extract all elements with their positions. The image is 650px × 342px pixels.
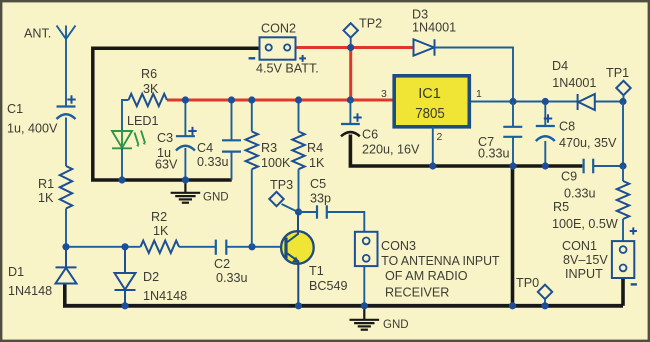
svg-text:OF AM RADIO: OF AM RADIO — [385, 269, 468, 283]
connector CON2 4.5V battery — [260, 37, 296, 59]
wire black riser from D1 anode to ground rail — [63, 284, 67, 306]
svg-text:0.33u: 0.33u — [564, 187, 596, 201]
wire LED1 to black line — [121, 148, 123, 180]
wire CON3 to ground rail — [363, 266, 365, 306]
svg-text:R4: R4 — [307, 141, 323, 155]
capacitor C1 (1u, 400V electrolytic) — [57, 105, 76, 107]
junction TP2 on battery rail — [347, 44, 354, 51]
junction C3 bottom / GND — [182, 176, 189, 183]
wire C1 to R1 — [65, 118, 67, 167]
resistor R2 1K — [141, 241, 180, 253]
junction TP1 / D4 / R5 column — [619, 98, 626, 105]
svg-text:T1: T1 — [309, 264, 324, 278]
svg-text:D2: D2 — [143, 270, 159, 284]
svg-text:C9: C9 — [561, 170, 577, 184]
label CON1 plus — [630, 227, 637, 234]
capacitor C2 0.33u — [216, 240, 227, 255]
svg-text:IC1: IC1 — [418, 86, 441, 102]
svg-text:0.33u: 0.33u — [478, 147, 510, 161]
wire C5 to CON3 — [327, 212, 365, 232]
svg-text:R1: R1 — [38, 177, 54, 191]
wire red battery positive from CON2 to D3 anode — [295, 46, 414, 49]
svg-text:R6: R6 — [141, 67, 157, 81]
svg-text:TP3: TP3 — [270, 178, 293, 192]
junction R3 on red rail — [248, 96, 255, 103]
wire node to R5 — [622, 166, 624, 181]
svg-text:TP1: TP1 — [606, 66, 629, 80]
junction C8 on ground line — [542, 162, 549, 169]
resistor R1 1K — [60, 166, 72, 209]
wire TP2 stub — [350, 38, 352, 46]
junction R3 bottom / base line — [248, 243, 255, 250]
wire ground stub at C3 — [184, 181, 186, 192]
wire black battery-negative loop from CON2 around left to C4 — [93, 48, 260, 180]
test point TP3 — [269, 192, 283, 206]
svg-text:GND: GND — [203, 192, 229, 204]
svg-text:1u, 400V: 1u, 400V — [7, 122, 58, 136]
junction TP0 on ground rail — [541, 302, 548, 309]
wire red supply rail from R6 to IC1 pin 3 — [167, 99, 393, 102]
svg-text:1: 1 — [476, 88, 482, 100]
svg-text:1N4001: 1N4001 — [552, 76, 596, 90]
wire output node to C7 — [512, 102, 514, 127]
svg-text:BC549: BC549 — [309, 279, 348, 293]
transistor T1 BC549 — [281, 231, 314, 264]
junction emitter to ground rail — [295, 302, 302, 309]
resistor R6 3K — [129, 94, 168, 106]
node junction R1/D1/R2 — [62, 243, 69, 250]
svg-text:D4: D4 — [552, 59, 568, 73]
test point TP2 — [344, 23, 358, 37]
svg-text:2: 2 — [437, 131, 443, 143]
diode D4 1N4001 (pointing left) — [578, 94, 595, 110]
diode D3 1N4001 — [414, 39, 435, 55]
wire TP3 stub to collector node — [282, 204, 298, 212]
capacitor C9 0.33u — [584, 159, 594, 174]
wire R4 to collector node — [298, 169, 300, 212]
junction C7 / ground drop — [509, 162, 516, 169]
capacitor C7 0.33u — [503, 127, 522, 137]
diode D2 1N4148 (cathode down) — [115, 247, 136, 306]
svg-text:R2: R2 — [151, 210, 167, 224]
node junction R2 input / D2 — [121, 243, 128, 250]
junction R4 on red rail — [295, 96, 302, 103]
junction output node — [509, 98, 516, 105]
svg-text:3K: 3K — [143, 82, 159, 96]
label CON2 plus — [299, 55, 306, 62]
wire C8 to ground line — [544, 141, 546, 166]
wire antenna to C1 — [65, 39, 67, 107]
svg-text:CON1: CON1 — [562, 239, 597, 253]
svg-text:220u, 16V: 220u, 16V — [362, 143, 420, 157]
junction C4 top on red rail — [228, 96, 235, 103]
svg-text:C5: C5 — [310, 177, 326, 191]
svg-text:INPUT: INPUT — [565, 267, 603, 281]
junction C3 top on red rail — [182, 96, 189, 103]
wire rail to C3 — [184, 100, 186, 136]
wire collector node to C5 — [299, 211, 318, 213]
capacitor C3 1u 63V electrolytic — [176, 135, 195, 137]
svg-text:8V–15V: 8V–15V — [563, 253, 608, 267]
svg-text:R5: R5 — [553, 200, 569, 214]
svg-text:RECEIVER: RECEIVER — [385, 286, 449, 300]
svg-text:TP2: TP2 — [359, 17, 382, 31]
connector CON3 — [355, 232, 378, 266]
wire black bottom ground rail — [63, 304, 623, 308]
svg-text:C2: C2 — [214, 257, 230, 271]
wire R1 to node — [65, 209, 67, 247]
wire rail to R4 — [298, 100, 300, 132]
wire rail to R3 — [251, 100, 253, 132]
wire black riser from CON1 minus to ground rail — [621, 278, 625, 306]
resistor R3 100K — [246, 132, 258, 170]
wire red vertical from TP2 node down to 3V rail — [349, 48, 352, 101]
svg-text:100K: 100K — [261, 156, 291, 170]
junction C9 / R5 / TP1 column — [619, 162, 626, 169]
svg-text:D3: D3 — [412, 8, 428, 22]
svg-text:C8: C8 — [559, 120, 575, 134]
junction LED1 to ground segment — [118, 176, 125, 183]
wire IC1 pin2 to ground line — [432, 127, 434, 166]
svg-text:1K: 1K — [153, 224, 169, 238]
svg-text:1N4148: 1N4148 — [8, 284, 52, 298]
wire IC1 pin1 output rail — [471, 101, 577, 103]
resistor R5 100E 0.5W — [617, 181, 629, 219]
svg-text:C3: C3 — [157, 131, 173, 145]
svg-text:0.33u: 0.33u — [197, 155, 229, 169]
wire node to R2 — [66, 246, 141, 248]
svg-text:D1: D1 — [8, 265, 24, 279]
junction C8 on output rail — [542, 98, 549, 105]
wire output rail to C8 — [544, 102, 546, 127]
label CON2 minus — [249, 57, 256, 59]
svg-text:63V: 63V — [155, 158, 178, 172]
wire D4 anode to TP1 column — [595, 101, 623, 103]
wire C3 to black line — [184, 148, 186, 180]
junction collector node / C5 / TP3 — [295, 208, 302, 215]
connector CON1 8V-15V input — [612, 241, 634, 278]
wire R2 to C2 — [179, 246, 216, 248]
svg-text:1N4148: 1N4148 — [143, 289, 187, 303]
test point TP0 — [538, 285, 552, 299]
svg-text:CON2: CON2 — [261, 22, 296, 36]
wire C4 to black line end — [231, 152, 233, 180]
svg-text:C1: C1 — [7, 102, 23, 116]
svg-text:C6: C6 — [362, 128, 378, 142]
svg-text:R3: R3 — [261, 141, 277, 155]
svg-text:1K: 1K — [309, 156, 325, 170]
junction red vertical / C6 on rail — [347, 96, 354, 103]
svg-text:CON3: CON3 — [381, 239, 416, 253]
wire R3 to base node — [251, 169, 253, 247]
wire D3 cathode to output node — [435, 48, 514, 102]
wire output rail down right side — [622, 102, 624, 167]
svg-text:TO ANTENNA INPUT: TO ANTENNA INPUT — [381, 254, 499, 268]
svg-text:1K: 1K — [38, 191, 54, 205]
LED1 (green) — [112, 131, 145, 149]
wire TP1 stub — [623, 95, 625, 101]
wire C7 to ground line — [512, 137, 514, 166]
capacitor C5 33p — [317, 205, 327, 218]
capacitor C8 470u 35V electrolytic — [536, 125, 555, 127]
ground symbol at bottom rail — [350, 320, 380, 330]
svg-text:ANT.: ANT. — [24, 27, 51, 41]
capacitor C4 0.33u — [222, 140, 241, 151]
antenna ANT. — [57, 26, 76, 40]
label CON1 minus — [631, 283, 637, 285]
junction pin2 on ground line — [429, 162, 436, 169]
wire C2 to T1 base — [226, 246, 286, 248]
svg-text:470u, 35V: 470u, 35V — [559, 136, 617, 150]
wire black vertical ground drop — [511, 166, 515, 306]
junction D2 to ground rail — [121, 302, 128, 309]
wire rail to C6 — [349, 100, 351, 124]
wire black ground line from C6 to C9 — [350, 135, 582, 167]
svg-text:0.33u: 0.33u — [216, 271, 248, 285]
wire R6 to LED1 — [122, 100, 129, 131]
svg-text:3: 3 — [381, 88, 387, 100]
junction ground drop to bottom rail — [509, 302, 516, 309]
wire R5 to CON1 plus — [622, 219, 624, 241]
wire rail to C4 — [231, 100, 233, 140]
ground symbol at C3 — [171, 193, 201, 203]
diode D1 1N4148 (cathode up) — [56, 247, 77, 284]
resistor R4 1K — [292, 132, 304, 170]
svg-text:4.5V BATT.: 4.5V BATT. — [256, 62, 319, 76]
svg-text:7805: 7805 — [415, 106, 445, 122]
svg-text:33p: 33p — [310, 192, 331, 206]
wire ground stub at bottom rail — [363, 307, 365, 320]
op-amp/regulator IC1 7805 — [394, 76, 469, 127]
svg-text:GND: GND — [383, 319, 409, 331]
svg-text:TP0: TP0 — [516, 276, 539, 290]
svg-text:LED1: LED1 — [127, 114, 159, 128]
svg-text:1N4001: 1N4001 — [412, 21, 456, 35]
svg-text:C4: C4 — [197, 141, 213, 155]
svg-text:100E, 0.5W: 100E, 0.5W — [552, 217, 618, 231]
test point TP1 — [616, 81, 630, 95]
junction CON3 to ground rail — [361, 302, 368, 309]
wire TP0 stub — [544, 299, 546, 305]
wire C9 to R5 node — [593, 165, 623, 167]
